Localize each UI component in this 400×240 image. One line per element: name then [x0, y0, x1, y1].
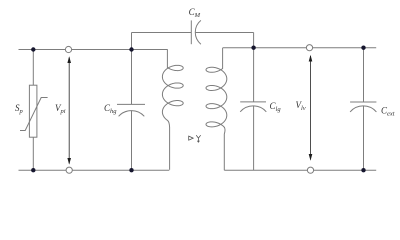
terminal circle bottom-right — [307, 167, 313, 173]
capacitor C_lg curved plate — [240, 106, 266, 112]
wire top-left rail — [19, 49, 168, 51]
svg-text:Chg: Chg — [104, 103, 117, 115]
svg-text:Vpi: Vpi — [55, 103, 66, 115]
svg-text:CM: CM — [189, 7, 201, 19]
junction dot C_ext bottom — [361, 168, 365, 172]
wire C_ext branch bottom — [363, 106, 365, 170]
wire bridge right — [196, 32, 254, 34]
wire S_p branch bottom — [32, 137, 34, 170]
symbol delta winding — [189, 136, 194, 140]
svg-text:Clg: Clg — [270, 101, 282, 113]
arrowhead V_lv up — [309, 55, 313, 62]
svg-text:Sp: Sp — [15, 103, 24, 115]
terminal circle top-right — [306, 45, 312, 51]
capacitor C_M curved plate — [195, 20, 201, 44]
capacitor C_ext top plate — [350, 101, 376, 103]
wire C_hg branch (bridge riser + capacitor branch top) — [131, 33, 133, 105]
varistor S_p slash — [20, 98, 48, 131]
wire right bridge riser — [253, 33, 255, 48]
junction dot S_p bottom — [31, 168, 35, 172]
junction dot S_p top — [31, 47, 35, 51]
capacitor C_M flat plate — [190, 20, 192, 44]
arrowhead V_pi down — [67, 158, 71, 165]
capacitor C_ext curved plate — [350, 106, 376, 112]
wire C_ext branch top — [363, 48, 365, 102]
wire C_hg branch bottom — [131, 111, 133, 170]
junction dot C_hg bottom — [129, 168, 133, 172]
wire C_lg branch bottom — [253, 106, 255, 170]
junction dot C_lg top — [251, 46, 255, 50]
svg-text:Vlv: Vlv — [296, 100, 306, 112]
arrow V_pi line — [68, 58, 70, 164]
inductor right winding — [206, 48, 227, 170]
capacitor C_hg top plate — [117, 103, 145, 105]
terminal circle top-left — [65, 46, 71, 52]
symbol wye grounded winding — [196, 135, 201, 142]
svg-text:Cext: Cext — [381, 106, 395, 118]
wire S_p branch top — [32, 50, 34, 86]
capacitor C_hg curved plate — [119, 111, 145, 117]
wire C_lg branch top — [253, 48, 255, 102]
junction dot C_ext top — [361, 46, 365, 50]
inductor left winding — [162, 49, 183, 169]
arrow V_lv line — [310, 56, 312, 160]
junction dot C_hg top — [129, 47, 133, 51]
terminal circle bottom-left — [66, 167, 72, 173]
capacitor C_lg top plate — [240, 101, 266, 103]
wire left coil drop (top rail corner down) — [166, 48, 168, 51]
wire top-right rail — [223, 47, 377, 49]
arrowhead V_lv down — [309, 154, 313, 161]
arrowhead V_pi up — [67, 56, 71, 63]
varistor S_p body — [29, 85, 37, 137]
wire bridge left — [132, 32, 192, 34]
wire bottom-right rail — [224, 169, 376, 171]
wire bottom-left rail — [19, 169, 170, 171]
